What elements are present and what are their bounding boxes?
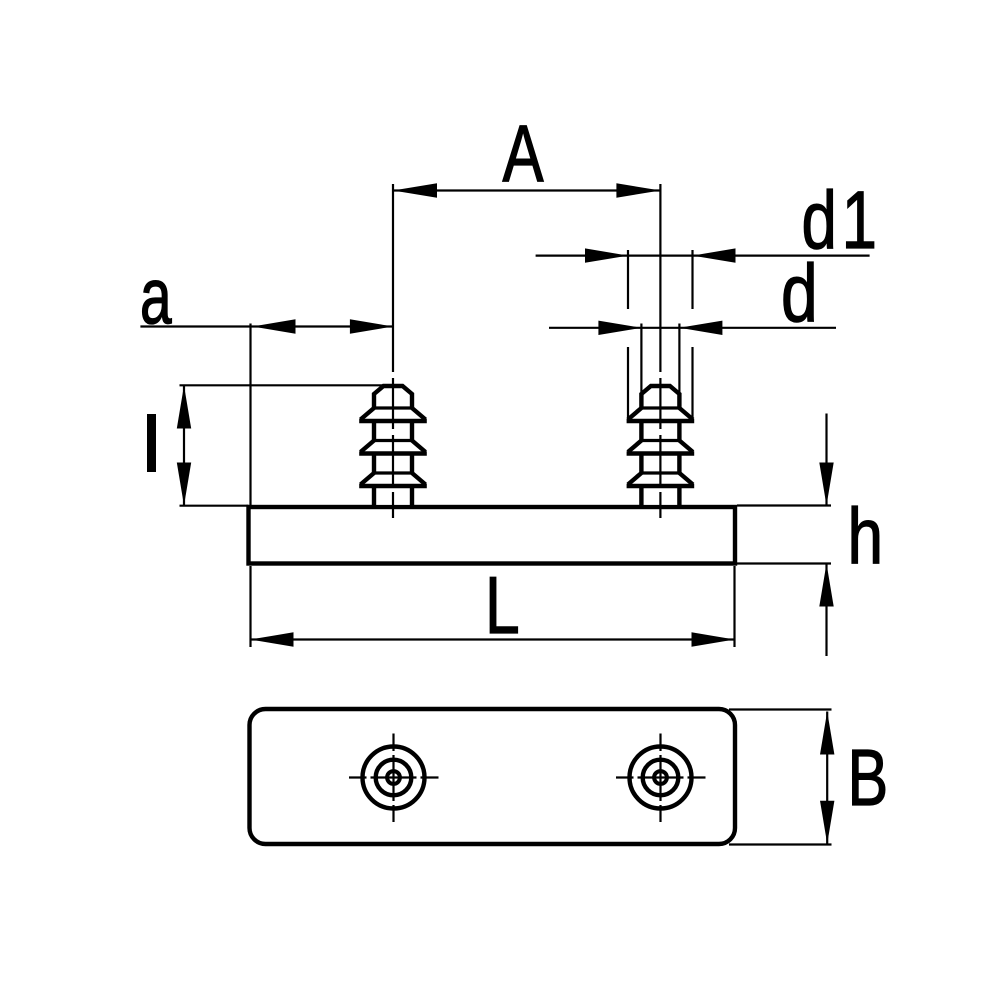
plate side view: [249, 507, 736, 564]
hole left circles: [349, 734, 439, 823]
dimension d1 line: [536, 248, 870, 420]
fir-tree clip left: [359, 386, 427, 506]
dimension L line: [251, 566, 735, 647]
svg-text:a: a: [140, 252, 172, 340]
svg-text:L: L: [485, 561, 520, 651]
svg-text:d: d: [781, 247, 818, 338]
label l (bar): [147, 414, 156, 472]
fir-tree clip right: [627, 386, 695, 506]
dimension A line: [393, 183, 660, 197]
dimension l line: [177, 385, 384, 505]
centerline right clip: [659, 184, 661, 518]
dimension B line: [729, 710, 834, 845]
svg-text:B: B: [848, 734, 889, 823]
dimension a line: [140, 319, 393, 505]
dimension d line: [549, 321, 836, 392]
plate top view rounded rectangle: [250, 709, 736, 844]
centerline left clip: [392, 184, 394, 518]
svg-text:A: A: [503, 109, 544, 199]
dimension h line: [737, 414, 834, 657]
svg-text:h: h: [848, 493, 884, 581]
hole right circles: [616, 734, 706, 823]
